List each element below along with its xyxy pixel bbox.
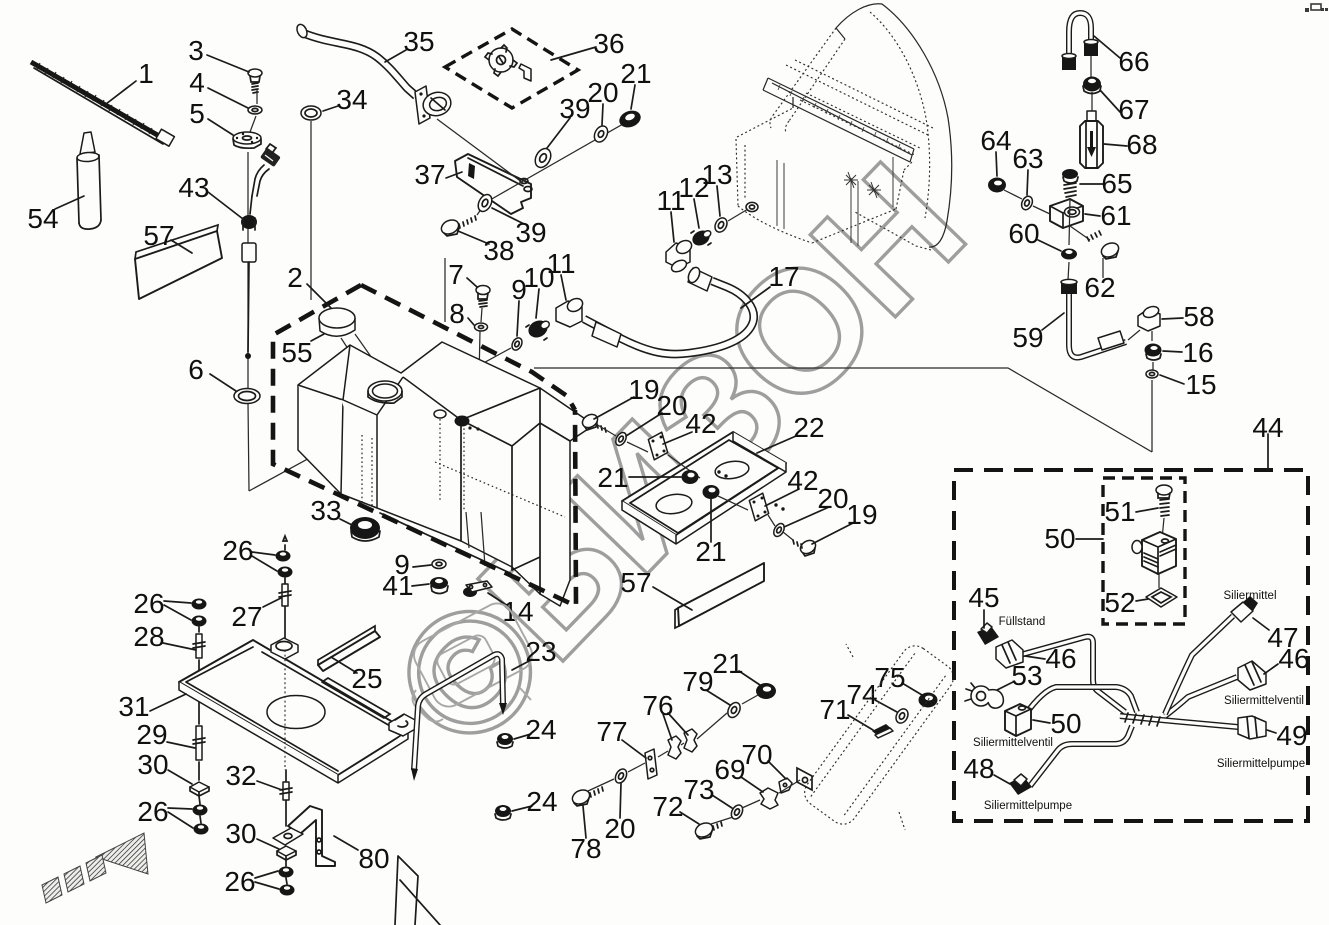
harvester machine outline (736, 4, 952, 250)
label 9 under tank (394, 549, 431, 580)
washer 74 (894, 707, 911, 725)
frame tube 23 (411, 654, 507, 781)
label 42 right (765, 465, 819, 506)
label 1 (106, 58, 154, 104)
clamp halves 76 (668, 729, 697, 759)
fitting 65 (1062, 169, 1078, 197)
nut 21 tray bottom (703, 485, 720, 499)
washer 60 (1061, 198, 1077, 280)
strap plate 14 (463, 581, 492, 597)
label 21 top row (620, 58, 651, 109)
svg-text:Siliermittelventil: Siliermittelventil (1224, 695, 1304, 707)
label 66 (1094, 36, 1150, 77)
fuel tank body (298, 342, 594, 606)
ring part 34 (301, 106, 321, 120)
washer 15 (1146, 370, 1158, 378)
svg-text:16: 16 (1182, 337, 1213, 368)
label 54 (27, 196, 84, 234)
connector 46 right (1238, 661, 1266, 690)
svg-text:10: 10 (523, 262, 554, 293)
solenoid 50 harness (1005, 704, 1031, 736)
svg-text:59: 59 (1012, 322, 1043, 353)
label 59 (1012, 313, 1064, 353)
bracket part 37 (455, 154, 532, 214)
svg-text:21: 21 (695, 536, 726, 567)
label 31 (118, 691, 186, 722)
plate 57 bottom (675, 563, 764, 628)
svg-text:19: 19 (846, 499, 877, 530)
label 39 lower (492, 208, 547, 248)
label 50 harness (1033, 708, 1082, 739)
inner dashed box 50 (1103, 478, 1185, 624)
svg-text:72: 72 (652, 791, 683, 822)
label 3 (188, 35, 249, 72)
tray axis right (718, 496, 793, 540)
svg-text:19: 19 (628, 374, 659, 405)
svg-text:63: 63 (1012, 143, 1043, 174)
dashed harness box 44 (954, 434, 1308, 821)
label 17 (741, 261, 800, 308)
label 20 top row (587, 77, 618, 125)
seal 52 (1146, 588, 1177, 607)
svg-text:55: 55 (281, 337, 312, 368)
svg-text:2: 2 (287, 262, 303, 293)
svg-text:41: 41 (382, 570, 413, 601)
connector 45 (977, 623, 999, 645)
washer 20 left (614, 431, 629, 448)
nut 64 (988, 178, 1006, 193)
svg-text:61: 61 (1100, 200, 1131, 231)
svg-text:48: 48 (963, 753, 994, 784)
label 80 (334, 836, 390, 874)
label 70 (741, 739, 786, 779)
label 27 (231, 598, 281, 632)
bolt 7 (476, 286, 490, 308)
svg-text:8: 8 (449, 298, 465, 329)
washer 73 (729, 803, 745, 821)
svg-text:43: 43 (178, 172, 209, 203)
svg-text:13: 13 (701, 159, 732, 190)
label 2 (287, 262, 331, 308)
svg-text:57: 57 (143, 220, 174, 251)
label 51 (1104, 496, 1158, 527)
svg-text:21: 21 (712, 648, 743, 679)
washer 79 (725, 700, 742, 719)
svg-text:79: 79 (682, 666, 713, 697)
svg-text:42: 42 (685, 408, 716, 439)
label 4 (189, 67, 248, 108)
svg-text:49: 49 (1276, 720, 1307, 751)
label 33 (310, 495, 352, 526)
label 79 (682, 666, 730, 705)
label 76 (642, 690, 688, 740)
platform 31 (179, 638, 417, 783)
bolt 62 (1087, 231, 1121, 278)
label 53 (997, 660, 1043, 691)
label 43 (178, 172, 243, 219)
nut 33 (350, 517, 380, 541)
rod 32 (280, 770, 292, 826)
label 65 (1080, 168, 1133, 199)
svg-text:26: 26 (222, 535, 253, 566)
label 21 clamp (712, 648, 760, 685)
svg-text:46: 46 (1045, 643, 1076, 674)
label 57 left (143, 220, 192, 253)
svg-text:58: 58 (1183, 301, 1214, 332)
label 61 (1085, 200, 1132, 231)
svg-text:Siliermittel: Siliermittel (1223, 590, 1276, 602)
boot 46 left (996, 640, 1023, 668)
filter 68 (1080, 111, 1103, 168)
bolt 7 axis (478, 308, 482, 427)
svg-text:76: 76 (642, 690, 673, 721)
nut 75 (919, 693, 938, 708)
washer 20 clamp (613, 767, 629, 785)
nut 26 bottom pair (279, 860, 295, 896)
label 77 (596, 716, 646, 758)
nut 24 lower (495, 805, 511, 820)
svg-text:5: 5 (189, 98, 205, 129)
phantom console left (408, 598, 537, 722)
hose 17 (584, 266, 754, 354)
svg-text:36: 36 (593, 28, 624, 59)
tank cap 55 (319, 308, 386, 381)
label 24 lower (512, 786, 558, 817)
hose 66 u-tube (1062, 13, 1098, 70)
label 62 (1084, 272, 1115, 303)
solenoid 50 (1132, 532, 1176, 588)
svg-text:24: 24 (525, 714, 556, 745)
washer 63 (1020, 195, 1035, 212)
svg-text:78: 78 (570, 833, 601, 864)
label 21 tray left (597, 462, 681, 493)
plate 42 left (647, 431, 668, 460)
dashed kit box 36 (445, 29, 578, 108)
console bracket (797, 768, 812, 790)
bolt 19 right (793, 538, 818, 556)
svg-text:22: 22 (793, 412, 824, 443)
clamp bolt 78 (570, 787, 603, 807)
svg-text:68: 68 (1126, 129, 1157, 160)
svg-text:80: 80 (358, 843, 389, 874)
svg-text:6: 6 (188, 354, 204, 385)
svg-text:15: 15 (1185, 369, 1216, 400)
construction line to valve group (534, 368, 1152, 452)
label 19 left (594, 374, 660, 419)
label 6 (188, 354, 236, 391)
svg-text:77: 77 (596, 716, 627, 747)
svg-text:21: 21 (597, 462, 628, 493)
svg-text:54: 54 (27, 203, 58, 234)
lower clamp axis (711, 780, 800, 824)
svg-text:24: 24 (526, 786, 557, 817)
bolt 51 (1156, 485, 1172, 560)
svg-text:39: 39 (559, 93, 590, 124)
svg-text:20: 20 (817, 483, 848, 514)
washer 39 lower (475, 192, 494, 214)
svg-text:31: 31 (118, 691, 149, 722)
label 50 inner (1044, 523, 1103, 554)
pin 71 (872, 724, 893, 738)
svg-text:29: 29 (136, 719, 167, 750)
connector 47 (1231, 596, 1258, 622)
sealant tube part 54 (77, 132, 101, 229)
hose part 35 (295, 23, 454, 322)
bolt 19 left (580, 412, 606, 432)
rod 27 (279, 536, 291, 647)
svg-text:23: 23 (525, 636, 556, 667)
clamp 69 (760, 788, 778, 809)
plate 77 (645, 749, 657, 779)
label 13 (701, 159, 732, 216)
label 52 (1104, 587, 1148, 618)
svg-text:67: 67 (1118, 94, 1149, 125)
svg-text:Siliermittelpumpe: Siliermittelpumpe (984, 800, 1072, 812)
tray 22 (622, 432, 786, 544)
nut 24 upper (497, 733, 513, 748)
label 55 (281, 334, 324, 368)
label 26 upper (222, 535, 277, 571)
svg-text:44: 44 (1252, 412, 1283, 443)
label 29 (136, 719, 195, 750)
nuts 26 left pair (192, 599, 207, 627)
watermark BIZON (357, 130, 999, 785)
sensor cable part 43 (241, 144, 281, 359)
svg-text:50: 50 (1050, 708, 1081, 739)
washer 9 under tank (432, 560, 446, 569)
svg-text:65: 65 (1101, 168, 1132, 199)
bracket axis (1004, 190, 1090, 240)
label 23 (512, 636, 557, 670)
svg-text:52: 52 (1104, 587, 1135, 618)
label 22 (757, 412, 825, 453)
label 9 fitting (511, 274, 527, 336)
svg-text:37: 37 (414, 159, 445, 190)
svg-text:20: 20 (604, 813, 635, 844)
label 15 (1160, 369, 1217, 400)
svg-text:39: 39 (515, 217, 546, 248)
svg-text:Siliermittelpumpe: Siliermittelpumpe (1217, 758, 1305, 770)
clamp axis (588, 695, 758, 791)
svg-text:Füllstand: Füllstand (999, 616, 1046, 628)
label 26 bottom-left (137, 796, 193, 828)
svg-text:30: 30 (225, 818, 256, 849)
label 11 upper (656, 185, 685, 242)
plate 30 bottom (277, 846, 296, 860)
label 38 (458, 231, 515, 266)
washer 9 fitting (510, 336, 524, 352)
axis to machine port (728, 209, 748, 221)
svg-text:60: 60 (1008, 218, 1039, 249)
label 36 (551, 28, 625, 60)
mounting plate corner (395, 856, 440, 925)
svg-text:25: 25 (351, 663, 382, 694)
washer 20 right (772, 522, 787, 539)
label 30 bottom (225, 818, 279, 849)
label 44 (1252, 412, 1283, 443)
svg-text:17: 17 (768, 261, 799, 292)
label 11 lower (546, 248, 575, 300)
label 58 (1162, 301, 1215, 332)
label 60 (1008, 218, 1061, 251)
nut 21 top row (617, 108, 643, 131)
label 78 (570, 806, 601, 864)
label 48 (963, 753, 1010, 784)
svg-text:14: 14 (502, 596, 533, 627)
bolt 3 (248, 69, 262, 93)
direction arrow (42, 833, 148, 903)
svg-text:50: 50 (1044, 523, 1075, 554)
label 37 (414, 159, 462, 190)
label 46 left (1025, 643, 1077, 674)
svg-text:21: 21 (620, 58, 651, 89)
label 45 (968, 582, 999, 628)
hose 59 (1061, 279, 1126, 357)
svg-text:26: 26 (137, 796, 168, 827)
ring part 6 (234, 389, 260, 404)
plug bolt 41 (430, 577, 448, 594)
svg-text:4: 4 (189, 67, 205, 98)
console right phantom (799, 640, 959, 830)
nut 21 clamp (756, 683, 776, 699)
label 12 (678, 172, 709, 228)
svg-text:53: 53 (1011, 660, 1042, 691)
svg-text:73: 73 (683, 774, 714, 805)
svg-text:27: 27 (231, 601, 262, 632)
svg-text:3: 3 (188, 35, 204, 66)
svg-text:70: 70 (741, 739, 772, 770)
label 32 (225, 760, 282, 791)
svg-text:Siliermittelventil: Siliermittelventil (973, 737, 1053, 749)
label 30 left (137, 749, 192, 784)
label 72 (652, 791, 699, 824)
svg-text:30: 30 (137, 749, 168, 780)
nuts 26 upper pair (276, 551, 293, 578)
connector 48 (1009, 774, 1032, 795)
fitting 16 (1145, 331, 1162, 370)
bar 25 (318, 626, 380, 671)
bolt 38 (439, 216, 476, 237)
flange part 5 (233, 132, 261, 148)
svg-text:1: 1 (138, 58, 154, 89)
label 57 bottom (620, 567, 692, 610)
label 20 clamp (604, 783, 635, 844)
label 7 (448, 259, 477, 290)
tray axis left (596, 424, 700, 478)
svg-text:20: 20 (587, 77, 618, 108)
label 26 bottom (224, 866, 279, 897)
label 5 (189, 98, 233, 135)
label 20 right (784, 483, 849, 527)
label 75 (874, 662, 922, 695)
svg-text:51: 51 (1104, 496, 1135, 527)
label 69 (714, 754, 763, 792)
fitting mount axis line (249, 348, 511, 491)
fitting 11 upper elbow (666, 238, 694, 274)
plate 30 left (190, 782, 209, 796)
label 42 left (663, 408, 717, 444)
label 34 (323, 84, 368, 115)
nut 21 tray left (682, 470, 699, 484)
svg-text:45: 45 (968, 582, 999, 613)
plate 42 right (748, 492, 769, 521)
svg-text:62: 62 (1084, 272, 1115, 303)
label 39 upper (547, 93, 591, 148)
fitting 12 (690, 228, 712, 249)
plate 57 left (135, 225, 222, 299)
label 35 (385, 26, 435, 62)
bracket 80 (273, 806, 335, 866)
svg-text:26: 26 (133, 588, 164, 619)
label 24 upper (514, 714, 557, 745)
page header marks (1305, 4, 1328, 12)
plug 53 (965, 683, 1003, 708)
label 68 (1104, 129, 1158, 160)
dashed case box 2 (273, 285, 576, 606)
label 41 (382, 570, 429, 601)
elbow 11 lower (556, 296, 585, 327)
nuts 26 bottom-left pair (193, 796, 209, 835)
label 67 (1100, 90, 1150, 125)
svg-text:57: 57 (620, 567, 651, 598)
bolt 72 (693, 820, 722, 839)
svg-text:35: 35 (403, 26, 434, 57)
label 49 (1267, 720, 1308, 751)
svg-text:32: 32 (225, 760, 256, 791)
svg-text:7: 7 (448, 259, 464, 290)
svg-text:64: 64 (980, 125, 1011, 156)
label 71 (819, 694, 873, 730)
svg-text:34: 34 (336, 84, 367, 115)
label 73 (683, 774, 732, 808)
rod 28 (193, 627, 205, 672)
fitting 10 (525, 317, 550, 341)
label 19 right (812, 499, 878, 544)
connector 49 (1238, 716, 1266, 739)
label 21 tray bottom (695, 499, 726, 567)
svg-text:9: 9 (511, 274, 527, 305)
rail on platform (322, 678, 390, 718)
label 28 (133, 621, 196, 652)
label 46 right (1264, 643, 1310, 674)
harness wires (1020, 616, 1238, 786)
bracket bolt axis (437, 119, 630, 215)
label 47 (1253, 618, 1299, 653)
svg-text:26: 26 (224, 866, 255, 897)
label 14 (488, 593, 534, 627)
label 20 left (626, 390, 688, 436)
washer 4 (248, 106, 262, 114)
svg-text:42: 42 (787, 465, 818, 496)
svg-text:28: 28 (133, 621, 164, 652)
label 26 left (133, 588, 191, 620)
washer 39 upper (532, 146, 554, 170)
label 63 (1012, 143, 1043, 195)
svg-text:66: 66 (1118, 46, 1149, 77)
washer 20 top row (592, 124, 611, 145)
sender rod axis wire (248, 89, 257, 491)
cable tie part 1 (31, 62, 174, 146)
elbow 58 (1128, 305, 1160, 340)
rod 29 (193, 672, 205, 780)
svg-text:33: 33 (310, 495, 341, 526)
bracket 61 (1050, 199, 1083, 228)
svg-text:38: 38 (483, 235, 514, 266)
washer 8 (475, 323, 488, 331)
label 10 (523, 262, 554, 318)
label 8 (449, 298, 474, 329)
nut 67 (1083, 56, 1101, 114)
